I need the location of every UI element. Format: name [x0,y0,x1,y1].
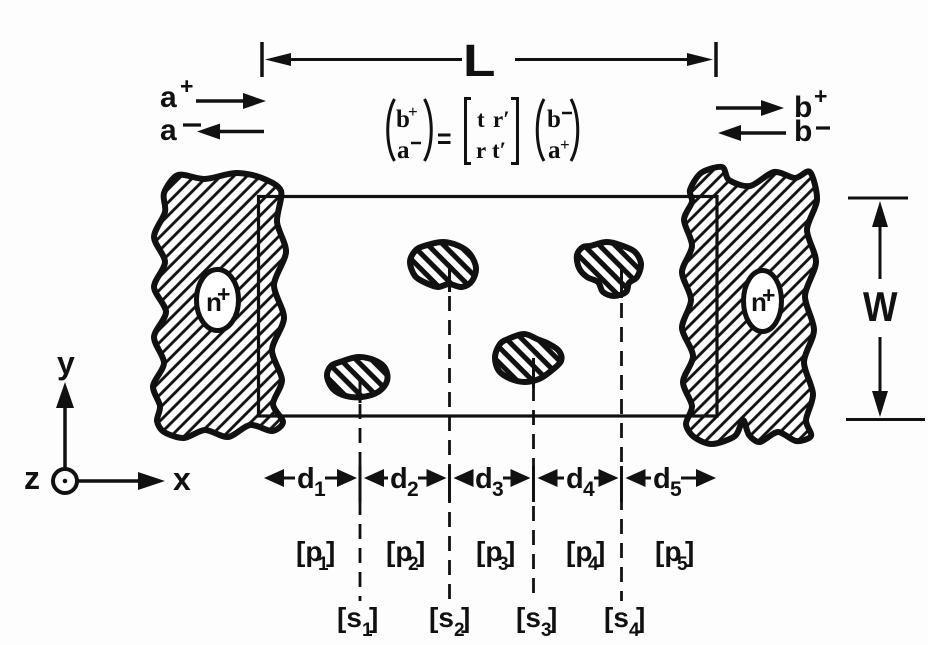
svg-text:z: z [24,460,40,496]
svg-text:]: ] [506,536,515,567]
svg-text:+: + [180,73,193,99]
svg-text:]: ] [416,536,425,567]
svg-text:]: ] [548,602,557,633]
svg-text:b: b [794,115,812,148]
svg-text:]: ] [685,536,694,567]
svg-text:4: 4 [583,478,595,501]
svg-text:+: + [762,282,775,308]
svg-text:x: x [173,461,191,497]
svg-text:]: ] [636,602,645,633]
svg-text:+: + [560,135,570,154]
svg-text:5: 5 [670,478,682,501]
svg-text:1: 1 [314,478,326,501]
svg-text:d: d [653,463,671,495]
svg-text:d: d [475,463,493,495]
svg-text:L: L [463,36,495,86]
svg-text:[s: [s [604,602,629,633]
svg-text:]: ] [461,602,470,633]
svg-text:r: r [476,138,486,163]
svg-text:W: W [863,284,898,331]
svg-text:[s: [s [429,602,454,633]
svg-text:b: b [547,106,561,133]
svg-text:+: + [217,281,230,307]
svg-text:t′: t′ [492,138,506,163]
svg-text:+: + [814,83,827,109]
svg-text:+: + [408,102,418,121]
svg-text:d: d [566,463,584,495]
svg-text:]: ] [596,536,605,567]
svg-text:a: a [160,81,177,114]
svg-text:a: a [397,137,410,164]
svg-text:d: d [390,463,408,495]
svg-text:[s: [s [337,602,362,633]
svg-text:]: ] [369,602,378,633]
svg-text:]: ] [326,536,335,567]
svg-text:[s: [s [516,602,541,633]
svg-text:r′: r′ [493,107,510,132]
svg-text:3: 3 [492,478,504,501]
svg-text:2: 2 [407,478,419,501]
svg-text:t: t [477,107,485,132]
svg-text:a: a [160,114,177,147]
svg-text:d: d [297,463,315,495]
svg-text:y: y [57,345,75,381]
